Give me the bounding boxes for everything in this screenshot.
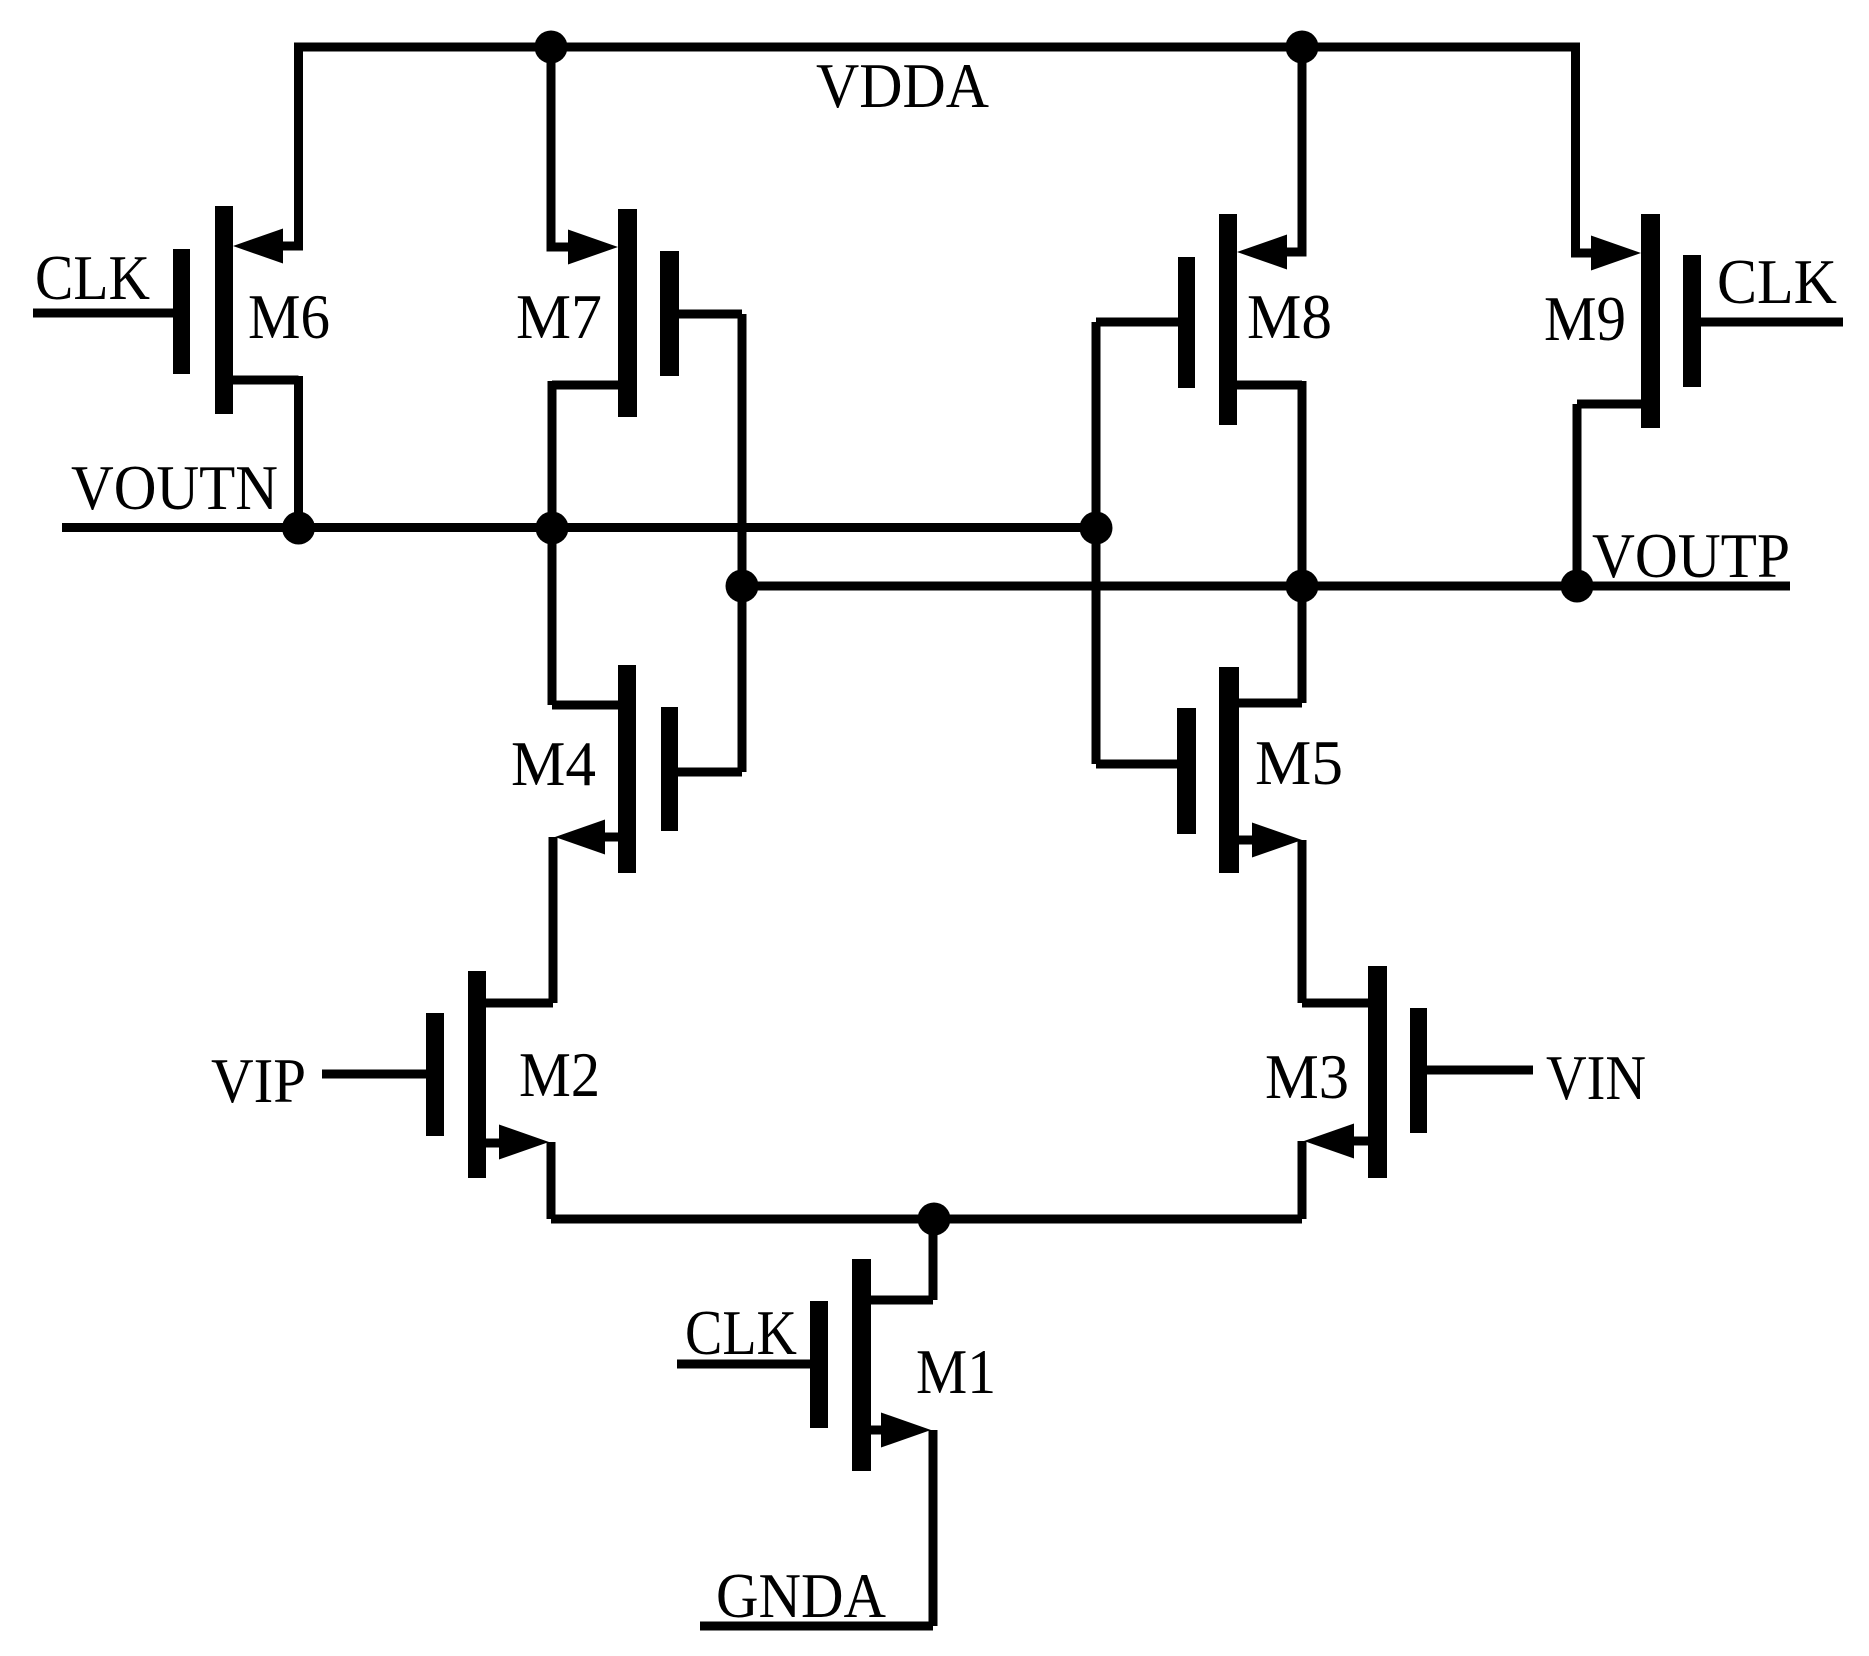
svg-text:M4: M4 bbox=[511, 728, 596, 799]
svg-text:VOUTN: VOUTN bbox=[71, 452, 278, 523]
svg-text:GNDA: GNDA bbox=[716, 1560, 886, 1631]
svg-text:VOUTP: VOUTP bbox=[1592, 520, 1790, 591]
svg-text:M3: M3 bbox=[1265, 1041, 1349, 1112]
svg-text:M8: M8 bbox=[1247, 281, 1332, 352]
svg-text:VDDA: VDDA bbox=[816, 50, 989, 121]
svg-text:CLK: CLK bbox=[685, 1297, 797, 1368]
svg-text:M1: M1 bbox=[916, 1336, 996, 1407]
svg-text:M7: M7 bbox=[516, 281, 602, 352]
svg-text:M5: M5 bbox=[1255, 727, 1343, 798]
svg-text:M6: M6 bbox=[248, 281, 330, 352]
svg-text:VIP: VIP bbox=[211, 1045, 306, 1116]
svg-text:M9: M9 bbox=[1544, 283, 1626, 354]
svg-text:CLK: CLK bbox=[35, 242, 150, 313]
svg-text:VIN: VIN bbox=[1546, 1042, 1646, 1113]
svg-text:CLK: CLK bbox=[1717, 246, 1837, 317]
svg-text:M2: M2 bbox=[519, 1039, 600, 1110]
